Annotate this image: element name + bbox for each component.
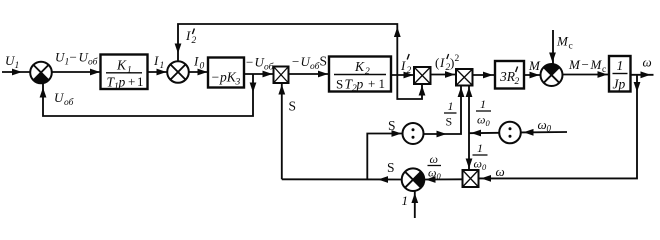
multiplier MUL2 [456,69,473,86]
wire: squaring loop [397,75,425,99]
wire K2 to SQ (I2' node) [391,74,414,76]
wire: w0 input to DIV2 [521,131,567,133]
multiplier MUL1 [274,67,289,84]
summing junction SUM3 [541,64,563,86]
svg-text:+: + [128,74,135,89]
summing junction SUM4 [402,168,425,191]
svg-text:1: 1 [15,61,20,71]
svg-text:ω: ω [538,117,547,132]
svg-text:ω: ω [477,113,485,127]
block K2: K2/(ST2p+1) [329,57,391,92]
block 3R2' [495,61,524,89]
svg-text:M: M [556,34,569,49]
svg-text:S: S [289,99,297,114]
svg-text:1: 1 [480,97,486,111]
svg-text:ω: ω [496,164,505,179]
wire: omega output [631,74,654,76]
svg-text:K: K [354,59,365,74]
svg-text:1: 1 [448,99,454,113]
svg-text:1: 1 [379,76,386,91]
wire pK3 to MUL1 [244,73,274,75]
svg-text:M: M [568,57,581,72]
wire: U1 input [2,71,30,73]
wire: 1/S riser into MUL2 [424,86,465,138]
svg-text:с: с [602,65,606,75]
svg-text:1: 1 [477,141,483,155]
wire: Mc input [549,30,556,64]
summing junction SUM1 [30,62,52,84]
block 1/Jp [609,56,631,92]
svg-text:2: 2 [192,36,197,46]
wire SQ to MUL2 [431,74,457,76]
svg-text:2: 2 [455,54,460,64]
svg-text:0: 0 [200,62,205,72]
wire K1 to SUM2 [148,71,168,73]
svg-text:M: M [590,57,603,72]
svg-text:3: 3 [235,78,241,88]
svg-text:S: S [446,115,453,129]
wire: S riser to DIV1 [367,134,402,180]
svg-text:p: p [118,75,126,90]
svg-text:об: об [264,62,275,73]
svg-text:−: − [582,57,589,72]
svg-text:I: I [400,58,406,73]
wire MUL3 to SUM4 [425,178,463,180]
svg-text:2: 2 [407,66,412,76]
svg-text:S: S [387,160,395,175]
svg-text:−: − [70,50,77,65]
wire DIV2 out [469,132,499,134]
svg-text:pK: pK [219,70,237,85]
svg-text:I: I [439,55,445,70]
svg-text:K: K [116,58,127,73]
svg-text:S: S [388,118,396,133]
wire: omega feedback [479,75,641,182]
wire: 1/w0 riser [466,86,473,170]
svg-text:0: 0 [482,162,487,172]
multiplier MUL3 bottom [463,170,479,187]
svg-text:1: 1 [137,74,144,89]
svg-text:ω: ω [474,157,482,171]
svg-text:ω: ω [428,166,436,180]
svg-text:2: 2 [515,77,520,87]
wire SUM3 to Jp [563,74,610,76]
svg-text:M: M [528,58,541,73]
svg-text:ω: ω [430,152,438,166]
svg-text:1: 1 [402,193,409,208]
svg-text:+: + [368,76,375,91]
divider DIV1 [403,123,424,144]
svg-text:(: ( [435,55,439,70]
wire SUM1 to K1 [52,71,101,73]
block -pK3 [208,58,244,88]
wire MUL2 to 3R2 [473,74,496,76]
svg-text:3R: 3R [499,69,516,84]
svg-text:0: 0 [486,118,491,128]
wire MUL1 to K2 [289,73,330,75]
divider DIV2 [499,122,521,144]
svg-text:−: − [292,54,299,69]
svg-text:S: S [336,77,343,92]
svg-text:I: I [185,28,191,43]
wire 3R2 to SUM3 [524,74,541,76]
svg-text:0: 0 [547,124,552,134]
svg-text:1: 1 [617,58,624,73]
block K1: K1/(T1p+1) [101,55,148,90]
svg-text:−: − [246,55,253,70]
multiplier SQ squarer [414,67,431,84]
wire: I2' top feedback [175,24,401,75]
svg-text:об: об [64,97,75,108]
wire: 1 input to SUM4 [411,191,418,218]
svg-text:с: с [569,42,573,52]
svg-text:S: S [320,54,328,69]
wire SUM2 to pK3 [189,71,208,73]
svg-text:p: p [356,77,364,92]
svg-text:−: − [212,70,220,85]
svg-text:I: I [193,54,199,69]
svg-text:1: 1 [160,61,165,71]
svg-text:об: об [88,57,99,68]
wire: S input riser to MUL1 [278,83,285,179]
svg-text:Jp: Jp [613,77,626,92]
wire: Uov feedback [40,74,257,116]
wire: S output of SUM4 [282,176,402,183]
svg-text:ω: ω [643,55,652,70]
summing junction SUM2 [167,61,189,83]
svg-text:I: I [153,53,159,68]
